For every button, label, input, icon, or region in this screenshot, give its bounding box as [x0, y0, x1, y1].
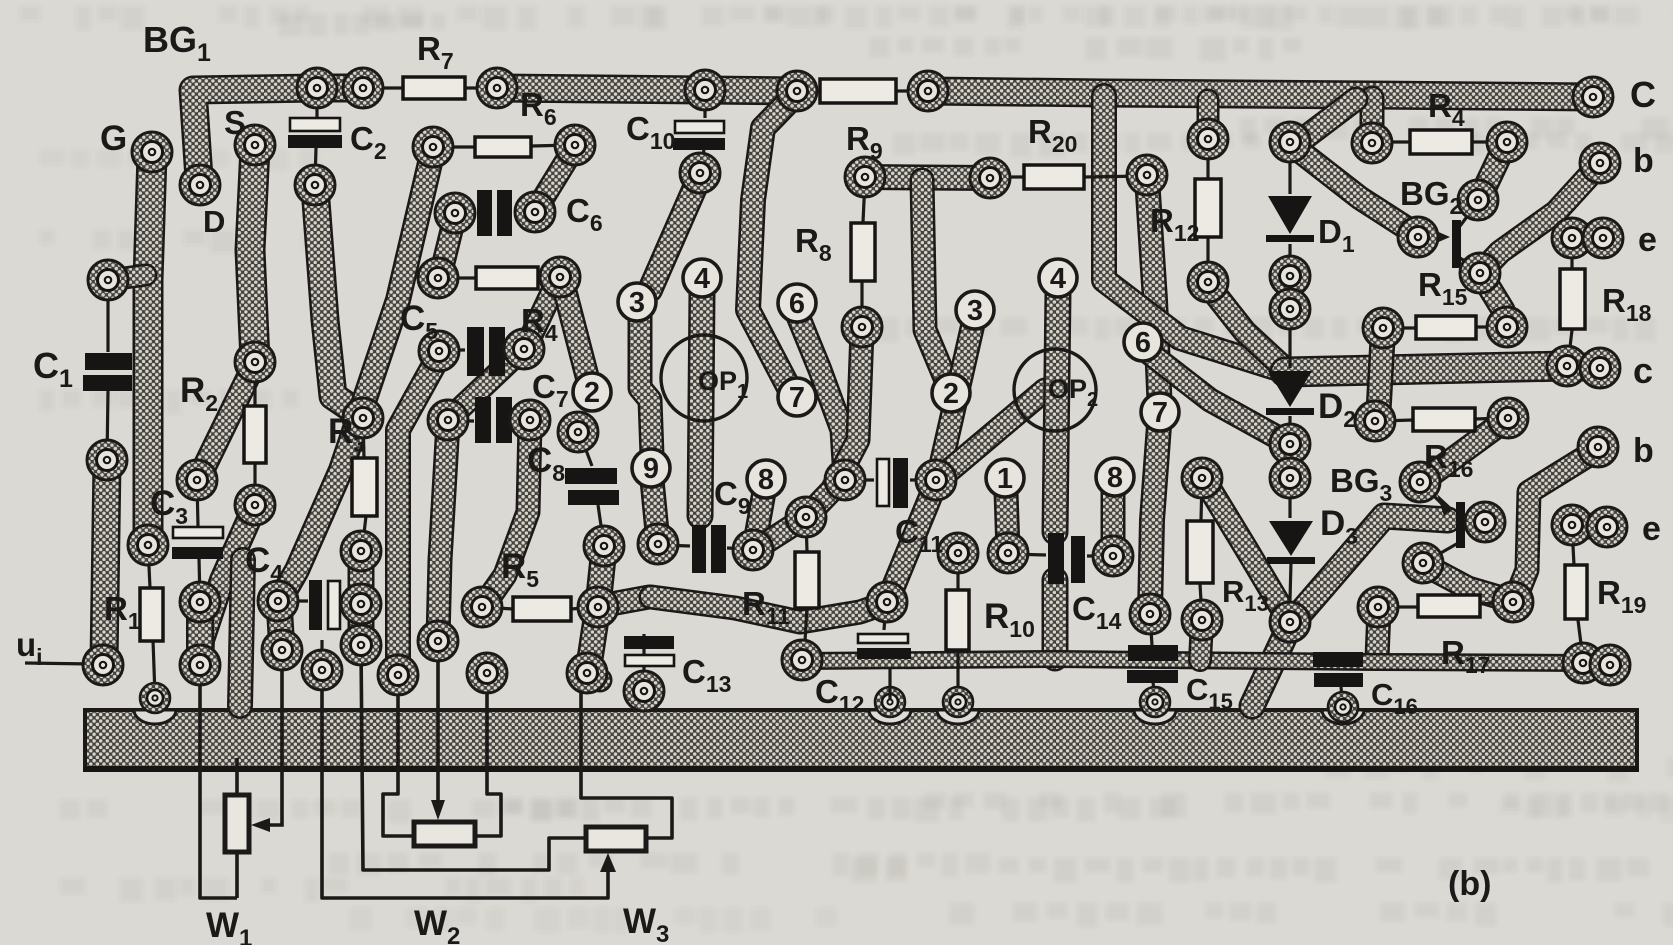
pad C11 left [825, 460, 865, 500]
wire pin3 OP2 to C11 right [938, 324, 973, 478]
pin 1 of OP2 [986, 459, 1024, 497]
wire R4 left lead [1374, 140, 1410, 143]
wire pin2 OP1 from R4b [561, 276, 588, 380]
wire D1 lower lead [1288, 244, 1291, 274]
svg-text:e: e [1638, 221, 1657, 259]
wire R4b right lead [539, 277, 558, 278]
pad R13 top [1182, 458, 1222, 498]
wire R17 right lead [1480, 602, 1510, 604]
wire C10 lower lead [702, 148, 704, 172]
wire pin4 OP2 vertical [1055, 292, 1058, 532]
pad BG3 base [1400, 462, 1440, 502]
pad pin1 OP2 node [988, 533, 1028, 573]
diode D3 [1267, 521, 1315, 564]
pad D1 top [1270, 122, 1310, 162]
wire C5 left to W2 node [398, 354, 440, 673]
svg-text:b: b [1633, 142, 1654, 180]
capacitor C10 [673, 121, 725, 150]
pad R6b right [555, 125, 595, 165]
wire D2 to D3 link [1288, 479, 1291, 518]
wire C8 node chain [588, 548, 604, 672]
wire R13 lower lead [1200, 584, 1202, 618]
wire C6 right to R6b right [536, 148, 574, 210]
wire W1 wiper with arrow [251, 653, 282, 832]
wire C14 right lead [1087, 554, 1111, 557]
svg-text:3: 3 [629, 287, 645, 319]
capacitor C4 [309, 580, 340, 630]
capacitor C7 [475, 397, 512, 443]
wire C15 lower link [1153, 682, 1155, 700]
wire R4b left lead [440, 276, 475, 279]
pad D2 bottom [1270, 424, 1310, 464]
wire R11 top lead [806, 519, 807, 551]
pad C10 top [685, 70, 725, 110]
wire pin2 OP1 to C8 [580, 434, 592, 466]
pad R11 top [786, 497, 826, 537]
potentiometer W2 [414, 822, 475, 846]
pin 4 of OP1 [683, 259, 721, 297]
wire C1 lower lead [107, 391, 108, 460]
ground bus bar [83, 710, 1639, 772]
capacitor C3 [172, 527, 223, 559]
pad BG3 right [1465, 502, 1505, 542]
svg-text:c: c [1633, 350, 1653, 391]
arrow BG2 base [1434, 230, 1450, 244]
pad clearance in ground bar [937, 710, 979, 724]
pad BG2 base [1398, 217, 1438, 257]
pad R4b right [540, 257, 580, 297]
wire C11 right diag to OP2 [938, 390, 1045, 480]
pad D2 bottom b [1270, 458, 1310, 498]
wire BG2 emitter lead [1460, 202, 1478, 226]
wire G branch [110, 275, 146, 280]
wire R3 leads [363, 418, 364, 458]
wire R10 lower lead [956, 650, 959, 700]
wire C11 left lead [847, 478, 874, 481]
svg-text:6: 6 [1135, 327, 1151, 359]
pad node G [132, 132, 172, 172]
wire R13 top lead [1201, 480, 1202, 520]
pin 7 of OP2 [1141, 393, 1179, 431]
op-amp OP2 outline [1014, 349, 1096, 431]
wire C13 top lead [642, 634, 645, 682]
resistor R12 [1195, 179, 1221, 237]
resistor R16 [1413, 408, 1475, 431]
pad D3 bottom [1270, 602, 1310, 642]
svg-text:G: G [100, 119, 127, 158]
capacitor C12 [857, 634, 911, 659]
pad node ui [83, 645, 123, 685]
pad node e upper b [1583, 218, 1623, 258]
wire R6b right lead [532, 145, 572, 146]
wire pin6 OP1 to C11 left [798, 316, 845, 478]
wire W3 wiper stub [320, 640, 323, 668]
svg-text:(b): (b) [1448, 865, 1491, 903]
wire pin4 OP1 vertical [700, 292, 702, 516]
wire W2 wiper with arrow [431, 643, 445, 820]
capacitor C14 [1048, 533, 1085, 584]
pad C5 right [504, 329, 544, 369]
pad node b upper [1580, 143, 1620, 183]
pin 7 of OP1 [778, 378, 816, 416]
wire top mid resistor leads [799, 89, 820, 92]
wire C4 node chain [348, 556, 375, 644]
svg-text:S: S [224, 104, 246, 141]
wire R4 right lead [1472, 140, 1504, 143]
wire BG3 emitter lead [1466, 520, 1483, 523]
wire R16 left lead [1380, 420, 1413, 421]
wire R7 left lead [366, 86, 402, 89]
pad R7 right [477, 68, 517, 108]
pad C13 top [624, 671, 664, 711]
wire rail branch to R4 [1360, 98, 1385, 140]
svg-text:b: b [1633, 432, 1654, 470]
wire R18 top lead [1570, 240, 1573, 268]
diode D1 [1266, 196, 1314, 242]
wire e lower pads link [1572, 525, 1605, 527]
pad C4 right [341, 584, 381, 624]
wire BG2 collector lead [1460, 258, 1480, 271]
pad pin7 OP2 bottom [1130, 594, 1170, 634]
wire W1 left [200, 667, 237, 898]
wire C2 leads [315, 90, 318, 117]
pad R1 ground [140, 683, 170, 713]
wire C7 left to W2 wiper node [438, 423, 448, 639]
wire b to BG2 c [1482, 166, 1598, 271]
pad C7 right [510, 400, 550, 440]
wire R8 lower lead [860, 282, 863, 327]
wire R16 right to BG3 b [1424, 420, 1506, 480]
wire R17 left lead [1381, 605, 1418, 608]
pin 3 of OP1 [618, 283, 656, 321]
pad G branch [88, 260, 128, 300]
wire C3 top link [197, 363, 255, 482]
wire W1 bottom lead [235, 852, 239, 898]
wire W2 right [477, 675, 501, 836]
wire C6 right lead [514, 210, 533, 213]
pad C4 left [258, 581, 298, 621]
pad node e upper a [1552, 218, 1592, 258]
pad R8 bottom [842, 307, 882, 347]
pad R20 right [1127, 155, 1167, 195]
wire C16 lower link [1341, 687, 1343, 706]
pad W2 right node [467, 653, 507, 693]
pad R12 bottom [1188, 262, 1228, 302]
pad R4b left [418, 258, 458, 298]
wire BG2 c to R15 right [1481, 274, 1507, 325]
wire R11 lower lead [804, 608, 807, 658]
wire C10 to pin3 OP1 [650, 176, 700, 290]
wire R9 rail [866, 177, 990, 178]
wire R20 to pin7 OP2 [1147, 178, 1160, 612]
resistor R11 [795, 552, 819, 608]
wire C9 right lead [727, 548, 752, 549]
transistor BG2 base bar [1452, 220, 1461, 268]
capacitor C16 [1313, 652, 1363, 687]
pad C3 top [177, 460, 217, 500]
arrow BG3 base [1437, 494, 1452, 516]
wire W3 wiper long [322, 672, 608, 898]
capacitor C5 [467, 327, 505, 376]
pad C6 left [435, 193, 475, 233]
pad bottom rail right a [1563, 643, 1603, 683]
wire R1 bottom lead [153, 640, 155, 696]
svg-text:7: 7 [789, 382, 805, 414]
wire R12 to c-rail [1208, 285, 1283, 367]
pad pin8 OP2 node [1093, 536, 1133, 576]
wire R11 top to C9 right [756, 517, 806, 549]
wire C7 right to R5 left [484, 423, 530, 605]
wire node S to R2 [250, 148, 255, 360]
capacitor C6 [477, 190, 512, 236]
wire c rail pad link [1567, 366, 1600, 368]
pad node S [235, 125, 275, 165]
wire C4 left chain [279, 603, 282, 650]
wire R13 to bottom rail [1200, 622, 1202, 660]
pad W2 wiper node [418, 621, 458, 661]
wire C5 left lead [441, 348, 465, 351]
wire b lower to R17 right [1515, 450, 1597, 600]
wire C15 link [1150, 616, 1152, 645]
wire C2 lower lead [315, 148, 316, 183]
wire node G vertical [148, 155, 152, 542]
resistor R4 [1410, 130, 1472, 154]
capacitor C2 [288, 118, 342, 148]
wire C10 top lead [703, 92, 706, 118]
capacitor C11 [877, 458, 908, 508]
pad C1 bottom [87, 440, 127, 480]
wire bottom rail [803, 659, 1583, 663]
pad C9 right [733, 530, 773, 570]
wire R12 top lead [1206, 138, 1209, 178]
svg-text:D: D [203, 204, 225, 239]
pad R5 right [578, 587, 618, 627]
wire R2 to W1 node [201, 508, 254, 663]
wire C1 leads [106, 282, 109, 352]
wire r6c right lead [897, 89, 926, 92]
pin 2 of OP1 [573, 373, 611, 411]
wire C5 right to C7 left [450, 350, 522, 418]
wire R3 lower lead [362, 516, 366, 551]
wire R4 right to BG2 e [1480, 145, 1505, 198]
pad pin7 rail [777, 71, 817, 111]
wire C4 right lead [342, 602, 361, 603]
svg-text:4: 4 [694, 263, 710, 295]
svg-text:7: 7 [1152, 397, 1168, 429]
resistor R18 [1560, 269, 1585, 329]
wire BG3 base lead [1423, 485, 1450, 512]
wire c rail [1285, 366, 1567, 372]
resistor R6b [475, 137, 531, 157]
pad clearance in ground bar [869, 710, 911, 724]
pad top rail left [297, 68, 337, 108]
pad C4 left lower [262, 630, 302, 670]
svg-text:4: 4 [1050, 263, 1066, 295]
pad BG2 collector [1460, 253, 1500, 293]
wire R2 lower lead [253, 462, 256, 506]
wire D1 to BG2 base [1293, 146, 1416, 234]
svg-text:e: e [1642, 510, 1661, 548]
wire pin7 OP1 to rail [748, 95, 795, 390]
resistor R7 [403, 77, 465, 99]
wire R5 node link [600, 597, 649, 606]
wire R1 top lead [148, 545, 150, 588]
wire bottom rail pad link [1583, 663, 1610, 665]
wire R20 left lead [992, 175, 1024, 178]
wire e pads link [1572, 225, 1603, 252]
wire R5 node to C12 node [651, 597, 886, 622]
pad C4 right lower [341, 625, 381, 665]
wire rail branch via elbow to c-rail [1104, 96, 1285, 371]
potentiometer W1 [225, 795, 249, 852]
wire W2 left [383, 677, 412, 836]
wire R20 right lead [1085, 176, 1145, 177]
pin 8 of OP2 [1096, 458, 1134, 496]
wire R19 lower lead [1578, 620, 1583, 660]
resistor r6c top middle [820, 79, 896, 103]
wire rail branch to R12 [1197, 100, 1220, 135]
pad R16 left [1355, 401, 1395, 441]
resistor R5 [513, 597, 571, 621]
svg-text:8: 8 [1107, 462, 1123, 494]
resistor R17 [1418, 595, 1480, 617]
wire C11 right lead [910, 478, 934, 481]
pad clearance in ground bar [134, 710, 176, 724]
pad node D [180, 165, 220, 205]
wire R2 bottom to ground bar [240, 560, 243, 706]
pad node C [1573, 77, 1613, 117]
capacitor C1 [83, 353, 132, 391]
pad C9 left [638, 524, 678, 564]
diode D2 [1266, 371, 1314, 415]
pad R1 top [128, 525, 168, 565]
wire BG3 lower lead [1425, 542, 1460, 562]
resistor R10 [946, 590, 969, 650]
wire pin8 OP1 to C9 right [754, 492, 764, 548]
resistor R1 [140, 588, 163, 641]
wire R9 branch to pin2 OP2 [922, 180, 950, 390]
pad clearance in ground bar [1134, 710, 1176, 724]
pad R11 bottom [782, 640, 822, 680]
potentiometer W3 [586, 827, 646, 851]
pad R9 right [970, 158, 1010, 198]
pad C3 bottom [180, 582, 220, 622]
pad R3 top [343, 398, 383, 438]
pad R17 right [1493, 582, 1533, 622]
svg-text:2: 2 [943, 378, 959, 410]
resistor R15 [1416, 316, 1476, 339]
pad C12 top [867, 582, 907, 622]
wire C6 left to R4b [440, 216, 455, 277]
capacitor C13 [624, 636, 674, 666]
wire pin6 OP2 to D2 [1148, 352, 1286, 442]
pin 4 of OP2 [1039, 259, 1077, 297]
pad C10 bottom [680, 153, 720, 193]
pad D1 bottom a [1270, 256, 1310, 296]
arrow W3 wiper [600, 853, 616, 872]
pad pin2 OP1 node [558, 412, 598, 452]
resistor R4b [476, 267, 538, 289]
resistor R20 [1024, 165, 1084, 189]
pin 3 of OP2 [956, 291, 994, 329]
pad C16 ground [1328, 692, 1358, 722]
wire W3 left long [361, 646, 584, 870]
pad BG3 lower [1403, 543, 1443, 583]
wire C6 left lead [457, 212, 476, 213]
wire pin9 to C9 left [652, 480, 658, 542]
wire C7 left lead [450, 419, 474, 422]
wire D3 lower lead [1290, 562, 1291, 600]
wire R19 top lead [1572, 527, 1574, 565]
svg-text:C: C [1630, 74, 1656, 115]
pin 9 of OP1 [632, 449, 670, 487]
wire R13 top to D3 trace [1205, 481, 1288, 619]
wire R3 bottom chain [348, 551, 375, 604]
wire BG3 e to R17 right [1425, 565, 1512, 601]
wire pin2 OP2 to C12 node [888, 483, 936, 600]
wire top rail middle [497, 88, 797, 91]
wire C4 left lead [279, 599, 308, 602]
pad C7 left [428, 400, 468, 440]
wire R8 to R11 top [808, 330, 862, 515]
pad clearance in ground bar [1322, 710, 1364, 724]
pad W3 right node [567, 653, 607, 693]
wire D1 double pad link [1277, 276, 1304, 308]
wire R15 right lead [1476, 325, 1505, 328]
pin 6 of OP2 [1124, 323, 1162, 361]
pad R2 top [235, 342, 275, 382]
pad rail mid right [908, 71, 948, 111]
pad R2 node [180, 645, 220, 685]
wire pin1 OP2 down [1006, 492, 1008, 551]
pad C8 bottom [584, 526, 624, 566]
wire W1 top lead [235, 758, 239, 795]
wire R17 left to bottom rail [1377, 609, 1379, 658]
pin 2 of OP2 [932, 374, 970, 412]
pad R13 bottom [1182, 600, 1222, 640]
pin 6 of OP1 [778, 284, 816, 322]
transistor BG3 base bar [1456, 502, 1465, 548]
pad R10 ground [943, 687, 973, 717]
resistor R19 [1565, 565, 1587, 619]
wire pin3 to pin9 OP1 [640, 315, 652, 455]
wire D1 top lead [1288, 144, 1291, 194]
pad BG2 emitter [1458, 180, 1498, 220]
wire R16 right lead [1475, 418, 1504, 419]
wire R15 left lead [1385, 326, 1416, 329]
wire D1 to D2 link [1288, 310, 1291, 368]
resistor R13 [1187, 521, 1213, 583]
resistor R2 [244, 406, 266, 463]
pad C2 bottom [295, 165, 335, 205]
capacitor C15 [1127, 645, 1178, 683]
wire D3 trace to BG3 [1252, 516, 1448, 706]
wire R6b left to C4 left [281, 150, 433, 598]
wire C3 lower lead [199, 558, 200, 602]
pad R4 right [1487, 122, 1527, 162]
svg-text:1: 1 [997, 463, 1013, 495]
wire R6 resistor leads [435, 145, 475, 148]
pad D1 bottom b [1270, 289, 1310, 329]
wire C5 right lead [506, 349, 522, 350]
wire dog-bone pads C13 [588, 672, 600, 680]
pad ground notch 1 [875, 687, 905, 717]
wire C7 right lead [513, 420, 528, 421]
pad node b lower [1578, 427, 1618, 467]
svg-text:6: 6 [789, 288, 805, 320]
capacitor C9 [692, 525, 726, 573]
wire BG2 base lead [1420, 235, 1444, 238]
